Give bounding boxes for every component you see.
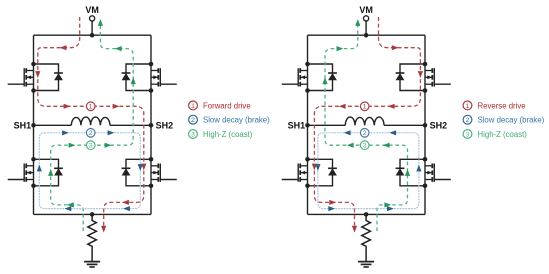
transistor high-side left (left bridge) bbox=[8, 62, 63, 93]
svg-text:2: 2 bbox=[363, 130, 367, 137]
wire current path 2 slow decay loop (blue, left bridge) bbox=[39, 133, 140, 209]
arrow path2 (right bridge) bbox=[328, 206, 335, 211]
wire current path 1 forward drive (red, left bridge) bbox=[38, 17, 144, 229]
arrow path3 (right bridge) bbox=[384, 202, 391, 207]
legend marker 1 (right) bbox=[463, 101, 472, 110]
svg-text:2: 2 bbox=[191, 117, 195, 124]
svg-text:SH2: SH2 bbox=[430, 120, 448, 130]
arrow path1 (right bridge) bbox=[418, 71, 423, 78]
node SH1 (right bridge) bbox=[305, 123, 310, 128]
arrow path2 (left bridge) bbox=[138, 164, 143, 171]
wire SH1 segment (left bridge) bbox=[34, 124, 72, 126]
arrow path2 (left bridge) bbox=[62, 130, 69, 135]
svg-text:VM: VM bbox=[85, 5, 99, 15]
arrow path3 (right bridge) bbox=[322, 77, 327, 84]
legend marker 3 (left) bbox=[189, 130, 198, 139]
svg-text:2: 2 bbox=[89, 130, 93, 137]
wire bottom rail (right bridge) bbox=[308, 213, 426, 215]
node VM junction (right bridge) bbox=[364, 33, 369, 38]
arrow path3 (left bridge) bbox=[131, 77, 136, 84]
ground (left bridge) bbox=[84, 262, 100, 267]
arrow path2 (right bridge) bbox=[344, 130, 351, 135]
arrow path1 (left bridge) bbox=[35, 71, 40, 78]
arrow path2 (right bridge) bbox=[387, 206, 394, 211]
resistor sense (right bridge) bbox=[362, 214, 371, 261]
wire current path 3 High-Z coast (green, right bridge) bbox=[325, 22, 408, 232]
arrow path1 (left bridge) bbox=[64, 104, 71, 109]
arrow path3 (right bridge) bbox=[337, 46, 344, 51]
ground (right bridge) bbox=[358, 262, 374, 267]
wire top rail (left bridge) bbox=[34, 34, 152, 36]
arrow path2 (left bridge) bbox=[108, 130, 115, 135]
node path marker 3 (right bridge) bbox=[360, 141, 369, 150]
arrow path2 (left bridge) bbox=[65, 206, 72, 211]
transistor high-side left (right bridge) bbox=[282, 62, 337, 93]
node path marker 2 (left bridge) bbox=[86, 129, 95, 138]
arrow path3 (right bridge) bbox=[405, 169, 410, 176]
arrow path1 (right bridge) bbox=[329, 200, 336, 205]
svg-text:1: 1 bbox=[363, 104, 367, 111]
arrow path3 (left bridge) bbox=[105, 143, 112, 148]
arrow path1 (right bridge) bbox=[352, 226, 357, 233]
arrow path1 (left bridge) bbox=[122, 200, 129, 205]
svg-text:1: 1 bbox=[191, 103, 195, 110]
node VM junction (left bridge) bbox=[90, 33, 95, 38]
arrow path1 (left bridge) bbox=[113, 104, 120, 109]
VM terminal circle (left bridge) bbox=[90, 16, 95, 21]
arrow path2 (left bridge) bbox=[123, 206, 130, 211]
arrow path1 (right bridge) bbox=[388, 104, 395, 109]
wire current path 2 slow decay loop (blue, right bridge) bbox=[318, 133, 419, 209]
wire left rail (right bridge) bbox=[307, 35, 309, 214]
wire current path 1 reverse drive (red, right bridge) bbox=[314, 17, 420, 229]
node path marker 3 (left bridge) bbox=[86, 141, 95, 150]
arrow path1 (right bridge) bbox=[312, 164, 317, 171]
inductor motor winding (right bridge) bbox=[345, 117, 384, 125]
arrow path1 (right bridge) bbox=[392, 45, 399, 50]
arrow path3 (left bridge) bbox=[48, 169, 53, 176]
wire top rail (right bridge) bbox=[308, 34, 426, 36]
svg-text:3: 3 bbox=[363, 143, 367, 150]
svg-text:1: 1 bbox=[466, 103, 470, 110]
wire VM lead (right bridge) bbox=[365, 21, 367, 35]
svg-text:Slow decay (brake): Slow decay (brake) bbox=[203, 116, 270, 125]
arrow path1 (left bridge) bbox=[101, 226, 106, 233]
arrow path3 (left bridge) bbox=[115, 46, 122, 51]
arrow path3 (left bridge) bbox=[98, 19, 103, 26]
wire VM lead (left bridge) bbox=[91, 21, 93, 35]
arrow path3 (left bridge) bbox=[69, 143, 76, 148]
node SH1 (left bridge) bbox=[31, 123, 36, 128]
node bottom center junction (right bridge) bbox=[364, 212, 369, 217]
legend marker 1 (left) bbox=[189, 101, 198, 110]
arrow path3 (right bridge) bbox=[383, 143, 390, 148]
wire current path 3 High-Z coast (green, left bridge) bbox=[51, 22, 134, 232]
legend marker 3 (right) bbox=[463, 130, 472, 139]
svg-text:Slow decay (brake): Slow decay (brake) bbox=[478, 116, 545, 125]
arrow path2 (right bridge) bbox=[315, 164, 320, 171]
transistor high-side right (right bridge) bbox=[396, 62, 451, 93]
wire right rail (right bridge) bbox=[424, 35, 426, 214]
arrow path1 (right bridge) bbox=[339, 104, 346, 109]
wire right rail (left bridge) bbox=[150, 35, 152, 214]
svg-text:3: 3 bbox=[191, 131, 195, 138]
svg-text:High-Z (coast): High-Z (coast) bbox=[478, 130, 528, 139]
legend marker 2 (right) bbox=[463, 115, 472, 124]
node SH2 (left bridge) bbox=[149, 123, 154, 128]
svg-text:Forward drive: Forward drive bbox=[203, 101, 251, 110]
svg-text:3: 3 bbox=[89, 143, 93, 150]
resistor sense (left bridge) bbox=[88, 214, 97, 261]
wire SH2 segment (right bridge) bbox=[384, 124, 425, 126]
svg-text:SH2: SH2 bbox=[156, 120, 174, 130]
transistor low-side left (right bridge) bbox=[282, 157, 337, 188]
transistor low-side left (left bridge) bbox=[8, 157, 63, 188]
arrow path1 (left bridge) bbox=[141, 164, 146, 171]
arrow path3 (right bridge) bbox=[347, 143, 354, 148]
svg-text:VM: VM bbox=[359, 5, 373, 15]
node path marker 2 (right bridge) bbox=[360, 129, 369, 138]
arrow path3 (left bridge) bbox=[67, 202, 74, 207]
transistor high-side right (left bridge) bbox=[122, 62, 177, 93]
svg-text:2: 2 bbox=[466, 117, 470, 124]
node path marker 1 (left bridge) bbox=[86, 102, 95, 111]
inductor motor winding (left bridge) bbox=[71, 117, 110, 125]
arrow path2 (right bridge) bbox=[389, 130, 396, 135]
node SH2 (right bridge) bbox=[423, 123, 428, 128]
svg-text:SH1: SH1 bbox=[288, 120, 306, 130]
wire left rail (left bridge) bbox=[33, 35, 35, 214]
wire bottom rail (left bridge) bbox=[34, 213, 152, 215]
arrow path2 (left bridge) bbox=[37, 165, 42, 172]
arrow path1 (left bridge) bbox=[60, 45, 67, 50]
wire SH2 segment (left bridge) bbox=[110, 124, 151, 126]
legend marker 2 (left) bbox=[189, 115, 198, 124]
node path marker 1 (right bridge) bbox=[360, 102, 369, 111]
arrow path3 (right bridge) bbox=[355, 19, 360, 26]
VM terminal circle (right bridge) bbox=[364, 16, 369, 21]
svg-text:SH1: SH1 bbox=[14, 120, 32, 130]
transistor low-side right (right bridge) bbox=[396, 157, 451, 188]
svg-text:3: 3 bbox=[466, 131, 470, 138]
svg-text:High-Z (coast): High-Z (coast) bbox=[203, 130, 253, 139]
transistor low-side right (left bridge) bbox=[122, 157, 177, 188]
svg-text:Reverse drive: Reverse drive bbox=[478, 101, 526, 110]
node bottom center junction (left bridge) bbox=[90, 212, 95, 217]
arrow path2 (right bridge) bbox=[416, 165, 421, 172]
wire SH1 segment (right bridge) bbox=[308, 124, 346, 126]
svg-text:1: 1 bbox=[89, 104, 93, 111]
